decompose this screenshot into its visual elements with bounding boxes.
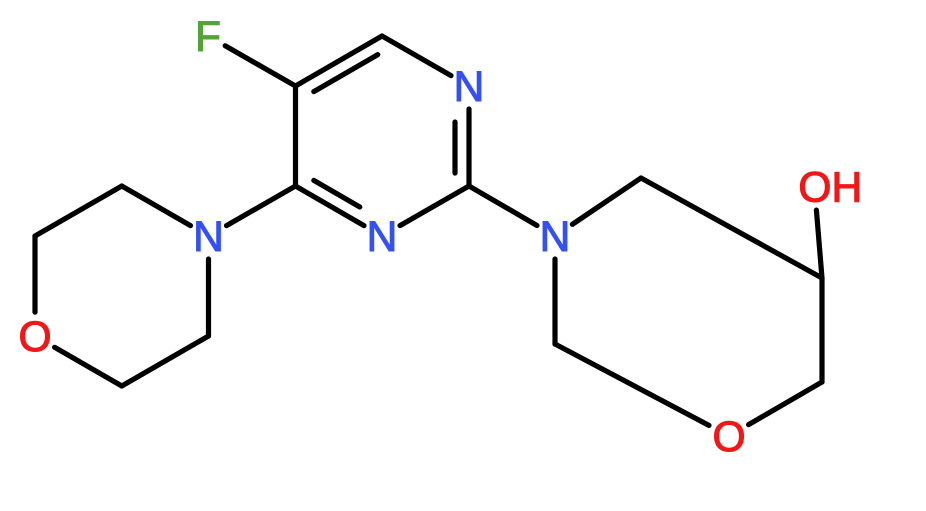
- bond E1-Nr oxazocane: [572, 178, 641, 224]
- bond D-OH: [816, 210, 822, 278]
- bond C4-N morpholine: [227, 186, 296, 226]
- double-bond inner line N3=C4: [314, 180, 360, 207]
- svg-text:O: O: [18, 314, 51, 361]
- bond C2-N oxazocane: [469, 186, 537, 226]
- bond O-P3 morpholine: [32, 236, 37, 312]
- bond P4-Nm morpholine: [122, 186, 191, 226]
- bond C5-F: [225, 46, 295, 86]
- bond C5-C6: [296, 36, 383, 86]
- svg-text:N: N: [367, 214, 398, 261]
- bond D-E2-E1 oxazocane long side: [641, 178, 822, 278]
- svg-text:N: N: [193, 214, 224, 261]
- svg-text:OH: OH: [798, 165, 862, 212]
- bond Nr-A oxazocane: [552, 259, 557, 344]
- bond C4-C5 pyrimidine left edge: [293, 86, 298, 186]
- svg-text:N: N: [454, 64, 485, 111]
- svg-text:O: O: [712, 414, 745, 461]
- svg-text:N: N: [540, 214, 571, 261]
- double-bond inner line C5=C6: [314, 55, 378, 92]
- svg-text:F: F: [195, 14, 221, 61]
- bond C2-N3: [400, 186, 469, 226]
- bond C-D oxazocane right edge: [819, 278, 824, 382]
- bond Nm-P1 morpholine: [206, 259, 211, 336]
- bond N3-C4: [296, 186, 365, 226]
- bond O-C oxazocane: [749, 382, 822, 425]
- bond P3-P4 morpholine: [35, 186, 122, 236]
- bond A-B-O oxazocane long side: [555, 344, 709, 425]
- bond P2-O morpholine: [55, 347, 122, 386]
- double-bond inner line N1=C2: [452, 122, 457, 173]
- bond C6-N1: [382, 36, 451, 76]
- bond P1-P2 morpholine: [122, 336, 209, 386]
- bond N1-C2 pyrimidine right edge: [466, 109, 471, 186]
